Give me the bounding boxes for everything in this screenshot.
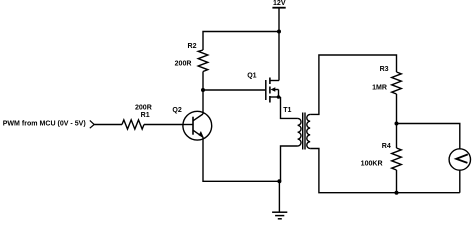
svg-text:Q2: Q2: [172, 107, 181, 114]
junction node ground: [277, 179, 281, 183]
wire R4 top: [396, 124, 398, 149]
resistor R4: [392, 148, 402, 170]
wire Q2 collector to Q1 gate: [203, 89, 265, 91]
svg-text:12V: 12V: [273, 0, 286, 7]
transistor Q1 MOSFET: [266, 78, 281, 103]
svg-text:1MR: 1MR: [372, 85, 387, 92]
wire T1 secondary bottom and bottom rail: [310, 149, 460, 193]
junction node R3/R4/meter: [395, 122, 399, 126]
wire Q2 collector up: [202, 90, 204, 114]
junction node collector/R2/gate: [201, 88, 205, 92]
junction node Q1 source/body: [277, 95, 281, 99]
svg-text:R3: R3: [380, 66, 389, 73]
resistor R3: [392, 72, 402, 94]
wire T1 secondary top to R3: [310, 55, 396, 114]
input port chevron: [90, 120, 94, 128]
wire R4 bottom: [396, 170, 398, 193]
transistor Q2: [183, 111, 212, 140]
svg-text:PWM from MCU (0V - 5V): PWM from MCU (0V - 5V): [3, 120, 86, 127]
junction node bottom rail: [395, 191, 399, 195]
wire R1 to Q2 base: [144, 124, 183, 126]
svg-text:R2: R2: [187, 43, 196, 50]
power 12V supply: [272, 8, 285, 32]
wire T1 primary bottom to ground rail: [281, 146, 298, 181]
transformer T1: [298, 113, 311, 150]
voltmeter: [449, 149, 470, 193]
svg-text:100KR: 100KR: [361, 161, 383, 168]
svg-text:200R: 200R: [175, 61, 192, 68]
wire R2 bottom: [202, 72, 204, 91]
wire R3 to junction: [396, 94, 398, 124]
svg-text:R4: R4: [382, 143, 391, 150]
resistor R1: [122, 120, 144, 129]
resistor R2: [198, 50, 208, 72]
svg-text:R1: R1: [141, 112, 150, 119]
wire input to R1: [94, 124, 122, 126]
svg-text:200R: 200R: [135, 104, 152, 111]
svg-text:T1: T1: [283, 107, 291, 114]
wire Q1 source to T1 primary top: [281, 97, 298, 118]
junction node 12V rail: [277, 30, 281, 34]
ground: [272, 181, 287, 219]
wire R2 top to rail: [203, 32, 279, 51]
wire Q2 emitter down and bottom rail: [203, 137, 279, 181]
wire junction to voltmeter: [397, 124, 460, 149]
wire 12V rail to Q1 drain: [278, 32, 280, 81]
svg-text:Q1: Q1: [247, 73, 256, 80]
